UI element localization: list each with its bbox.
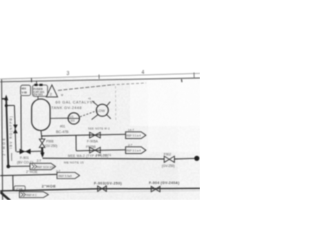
border frame top line 2 [0,78,200,82]
svg-text:(GV-250): (GV-250) [162,164,175,168]
svg-text:LOW: LOW [97,109,106,113]
svg-text:V-88: V-88 [22,90,28,94]
svg-text:REF # C: REF # C [26,193,37,197]
svg-text:SEE NOTE M-2: SEE NOTE M-2 [88,127,110,131]
svg-text:2"HOE: 2"HOE [2,136,6,155]
svg-text:F-903(GV-250): F-903(GV-250) [94,181,122,185]
valve F-902 (bowtie outline) [164,156,174,162]
wire: branch to riser 2 [6,104,14,106]
svg-text:REF 3.1.a.4: REF 3.1.a.4 [126,134,141,138]
svg-text:M. .. ... . ..: M. .. ... . .. [61,93,89,97]
riser 3 [12,176,14,191]
svg-text:GV-101: GV-101 [33,93,43,97]
wire to REF SCH flag [8,165,30,167]
svg-text:F902: F902 [164,153,171,157]
zone tick x99 [98,75,100,80]
valve F-905B (bowtie outline) [90,147,101,153]
svg-text:REF 3.1.a.4: REF 3.1.a.4 [126,149,141,153]
svg-text:MIX: MIX [22,87,27,91]
long pipe line 3 (bottom) [0,189,100,191]
alarm circle LOW with X arms [96,104,108,116]
triangle symbol [46,85,57,97]
pipe riser 1 (thick) [2,98,6,100]
ref flag 1 [126,132,146,139]
wire: tank to level gauge circle [50,117,68,119]
wire: vertical connector [75,135,77,150]
dashed signal line from triangle to right [58,85,112,91]
svg-text:F908: F908 [46,139,53,143]
wire: branch line 2 to F-905B [76,150,125,151]
svg-text:2-7: 2-7 [128,143,133,147]
faint crease vertical dashes [115,86,117,120]
zone tick x194 [193,73,195,78]
valve F-903 (bowtie outline) [98,186,107,191]
valve on riser 2 (vertical bowtie) [13,125,18,129]
drain arrow (bold) [41,148,43,154]
svg-text:F-904 (GV-240A): F-904 (GV-240A) [149,181,180,185]
svg-text:2"HOE: 2"HOE [26,170,38,174]
ref flag # C [19,192,48,198]
wire from tag box 2 down [20,96,22,152]
ref flag 2 [126,147,146,154]
svg-text:60 GAL CATALYST: 60 GAL CATALYST [56,101,96,105]
nozzle from tag box to tank [37,96,39,99]
svg-text:F-901: F-901 [20,156,29,160]
scan noise texture [0,78,200,200]
ghost echo of bottom pipe [0,191,200,193]
transfer line to F-902 [43,157,165,160]
svg-text:TANK GV-2448: TANK GV-2448 [51,106,82,110]
tick from border to tag box [36,81,38,84]
long pipe line 2 [0,174,57,175]
left border line [1,80,4,201]
junction dot riser1/branch [5,104,8,107]
svg-text:101: 101 [70,119,75,123]
svg-text:3: 3 [67,71,70,77]
valve F-901 (filled bowtie) [20,149,26,154]
small tick below border right [181,79,183,82]
end connection dot [194,156,199,161]
svg-text:2"HOE: 2"HOE [42,183,57,188]
svg-text:SEE NOTE: SEE NOTE [96,153,112,157]
tank drain line [40,131,43,140]
svg-text:4: 4 [142,70,145,76]
instrument circle LG (level gauge) [68,113,79,124]
tag box CHE [14,186,25,191]
svg-text:14-7: 14-7 [128,128,134,132]
tag box 2 (left) [21,85,31,95]
wire valve to end dot [174,157,194,160]
svg-text:ME NOTE 15: ME NOTE 15 [64,161,84,165]
small stub line near F-901 label [11,153,13,161]
valve F-904 (bowtie outline) [151,186,160,191]
svg-text:(GV-250): (GV-250) [44,144,57,148]
svg-text:(BV CO.C): (BV CO.C) [17,161,33,165]
svg-text:#01: #01 [60,124,66,128]
svg-text:BC-47B: BC-47B [56,130,69,134]
zone tick x31 [30,78,32,82]
arrow up on riser 1 [4,95,8,101]
gate valve F-908 [39,139,45,143]
clean white zone upper right [130,79,200,126]
junction dot bottom of riser 1 [7,165,11,169]
ref flag SCH [30,163,56,169]
scan blotch texture [0,80,178,200]
pipe riser 2 [14,105,16,151]
svg-text:REF 5.5a5: REF 5.5a5 [58,174,72,178]
svg-text:2-T: 2-T [37,159,42,163]
tank GV-2448 (capsule) [32,99,50,131]
tag box above tank [33,85,48,96]
valve F-905A (bowtie outline) [90,132,101,138]
svg-text:F-905A: F-905A [87,140,99,144]
svg-text:IBV RO(NFPB): IBV RO(NFPB) [9,115,13,148]
dashed signal: LG to LOW alarm [80,111,96,117]
border frame top line 1 [0,73,200,79]
thick diagonal pipe bottom-left corner [0,192,10,201]
wire: branch line 1 to F-905A [41,134,125,136]
wire: horizontal run y=151.5 [17,150,42,153]
svg-text:REF SCH 2(X): REF SCH 2(X) [37,165,55,169]
ref flag 5.5a5 [57,172,80,178]
